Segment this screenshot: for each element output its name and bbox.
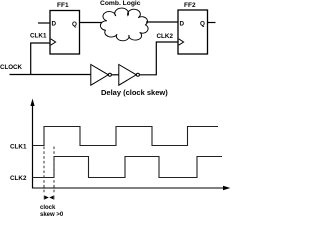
wire: CLOCK line (10, 74, 92, 76)
skew arrows marker (44, 196, 54, 200)
wire: FF2 Q output stub (208, 22, 216, 24)
svg-text:FF1: FF1 (57, 2, 69, 9)
svg-text:CLK1: CLK1 (10, 144, 27, 151)
timing diagram y-axis (30, 99, 34, 189)
wire: between inverters (112, 74, 119, 76)
cloud: Comb. Logic (100, 0, 148, 41)
svg-text:FF2: FF2 (184, 2, 196, 9)
waveform CLK2 (33, 157, 223, 178)
inverter 2 (119, 65, 140, 86)
dashed marker at CLK2 edge (53, 147, 55, 194)
svg-text:clock: clock (40, 205, 56, 211)
svg-text:CLK2: CLK2 (10, 175, 27, 182)
waveform CLK1 (33, 127, 219, 146)
svg-text:Q: Q (200, 20, 205, 27)
wire: FF1 D input stub (38, 22, 50, 24)
label clock skew >0 (40, 205, 64, 218)
svg-text:Comb. Logic: Comb. Logic (100, 0, 141, 7)
svg-text:CLOCK: CLOCK (0, 64, 23, 71)
wire: cloud to FF2 D (146, 21, 178, 23)
flip-flop FF2 (178, 2, 208, 54)
svg-text:Q: Q (72, 21, 77, 28)
svg-text:D: D (180, 20, 185, 27)
flip-flop FF1 (50, 2, 80, 54)
timing diagram x-axis (33, 186, 231, 191)
inverter 1 (91, 65, 112, 86)
wire: FF1 Q to cloud (80, 22, 102, 24)
svg-text:D: D (52, 21, 57, 28)
svg-text:skew >0: skew >0 (40, 212, 64, 217)
svg-text:Delay (clock skew): Delay (clock skew) (101, 88, 168, 97)
svg-text:CLK1: CLK1 (30, 33, 47, 40)
wire: branch to FF1 clock (31, 43, 50, 75)
svg-text:CLK2: CLK2 (157, 33, 174, 40)
dashed marker at CLK1 edge (43, 147, 45, 194)
wire: delay output to FF2 clock (140, 42, 179, 75)
